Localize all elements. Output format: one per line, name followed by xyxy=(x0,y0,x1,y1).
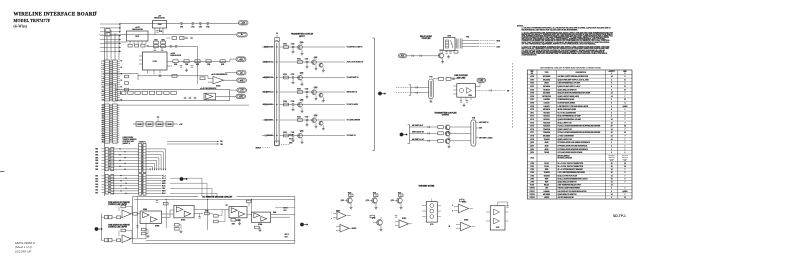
svg-text:DC TO DC CONVERTER: DC TO DC CONVERTER xyxy=(558,112,577,114)
svg-text:2: 2 xyxy=(611,149,612,151)
svg-text:1007: 1007 xyxy=(95,166,98,168)
svg-text:OUT: OUT xyxy=(285,236,288,238)
wire: ref out xyxy=(224,79,237,81)
svg-text:OF THE OPERATIONAL EQUIPMENT.: OF THE OPERATIONAL EQUIPMENT. REFER TO T… xyxy=(522,42,597,45)
ground xyxy=(186,69,188,71)
IC U711 unused sections xyxy=(426,202,437,223)
svg-text:J705: J705 xyxy=(530,178,534,180)
svg-text:1 OF 8 DECODER/DEMULTIPLEXER: 1 OF 8 DECODER/DEMULTIPLEXER xyxy=(558,172,586,174)
ground xyxy=(448,55,450,57)
bracket line input xyxy=(410,85,412,95)
svg-text:J701: J701 xyxy=(530,166,534,168)
ground xyxy=(463,104,465,106)
svg-text:U709: U709 xyxy=(530,106,534,108)
svg-text:7: 7 xyxy=(624,122,625,124)
svg-text:U717: U717 xyxy=(530,132,534,134)
svg-text:SD-TP-1: SD-TP-1 xyxy=(613,214,626,218)
svg-text:TO XMIT 4T: TO XMIT 4T xyxy=(347,134,357,137)
svg-text:Q710: Q710 xyxy=(341,200,345,202)
svg-text:J700: J700 xyxy=(530,163,534,165)
cable bottom connector xyxy=(275,141,280,146)
comparator block U709 xyxy=(252,212,271,222)
svg-text:R731: R731 xyxy=(297,58,301,60)
resistor R732 xyxy=(284,76,289,79)
capacitor C705 xyxy=(146,44,148,46)
transistor Q711 unused xyxy=(374,194,379,197)
capacitor C714 xyxy=(460,100,462,102)
transistor Q70 xyxy=(298,45,303,50)
svg-text:R763: R763 xyxy=(232,224,235,226)
svg-text:TO LINE DRIVER: TO LINE DRIVER xyxy=(347,120,361,122)
terminal PTT input xyxy=(399,54,407,58)
wire: decode inner left vertical xyxy=(137,197,139,239)
svg-text:K700: K700 xyxy=(448,36,452,38)
wire: xmit row 1 xyxy=(410,126,438,128)
svg-text:MODEL TRN7477F: MODEL TRN7477F xyxy=(14,18,51,23)
svg-text:U703: U703 xyxy=(530,86,534,88)
svg-text:U702: U702 xyxy=(530,83,534,85)
svg-text:7: 7 xyxy=(624,129,625,131)
wire: ref2 feed xyxy=(196,79,198,84)
svg-text:Q712: Q712 xyxy=(391,200,395,202)
terminal +2.4VREF xyxy=(236,94,246,98)
resistor R757 xyxy=(142,228,147,231)
wire: rail drop 1 xyxy=(165,199,167,228)
svg-text:R735: R735 xyxy=(297,116,301,118)
resistor R711 xyxy=(128,91,133,94)
svg-text:P2: P2 xyxy=(121,100,123,102)
label xmit outputs xyxy=(476,121,479,123)
svg-text:C723: C723 xyxy=(305,88,309,90)
svg-text:DET 2: DET 2 xyxy=(285,234,289,236)
terminal +4.8V xyxy=(236,57,246,62)
wire: decode right border xyxy=(294,197,296,244)
ground under transformer xyxy=(430,100,432,102)
resistor R701 xyxy=(135,44,139,47)
resistor R726 xyxy=(454,51,458,54)
svg-text:4W XMIT LO/600: 4W XMIT LO/600 xyxy=(479,137,492,140)
capacitor C726 xyxy=(292,134,294,136)
resistor R759 xyxy=(175,224,180,227)
table special row xyxy=(527,161,632,163)
capacitor C712 xyxy=(449,51,451,53)
svg-text:8: 8 xyxy=(624,172,625,174)
capacitor C720 xyxy=(292,45,294,47)
svg-text:3,GND: 3,GND xyxy=(622,106,628,108)
svg-text:U720: U720 xyxy=(530,158,534,160)
svg-text:TO RCV GATE: TO RCV GATE xyxy=(347,103,359,106)
svg-text:JU703: JU703 xyxy=(158,124,162,126)
svg-text:PTT: PTT xyxy=(401,55,404,57)
wire: node to 4.8V regulator xyxy=(196,47,198,80)
svg-text:U708: U708 xyxy=(530,103,534,105)
resistor R761 xyxy=(460,199,465,202)
svg-text:Q703: Q703 xyxy=(314,87,318,89)
svg-text:MEPS-39068-O: MEPS-39068-O xyxy=(15,241,36,245)
resistor R709b xyxy=(220,60,225,63)
svg-text:3: 3 xyxy=(611,197,612,199)
capacitor C717 xyxy=(190,36,192,38)
wire: xmit row 2 xyxy=(410,132,438,134)
wire: regulator interconnect xyxy=(105,41,127,43)
svg-text:R707: R707 xyxy=(196,64,199,66)
wire bundle 2 xyxy=(111,175,139,177)
transistor Q712 unused xyxy=(399,194,404,197)
wire: lines to decode circuit xyxy=(170,178,202,196)
transistor Q71 xyxy=(312,60,317,65)
connector pins line 2 xyxy=(105,238,108,241)
capacitor C719c xyxy=(194,96,196,98)
svg-text:1: 1 xyxy=(624,149,625,151)
terminal LINE xyxy=(477,78,486,82)
svg-text:28: 28 xyxy=(611,166,613,168)
terminal +4.8VREF xyxy=(237,78,247,82)
svg-text:OUT: OUT xyxy=(284,210,287,212)
resistor R753 xyxy=(205,212,210,215)
resistor R763 xyxy=(231,219,236,222)
svg-text:DC REMOTE DECODE CIRCUIT: DC REMOTE DECODE CIRCUIT xyxy=(202,197,233,199)
capacitor C725 xyxy=(306,118,308,120)
op-amp U705B xyxy=(117,239,121,242)
wire: opamp1 out xyxy=(131,213,133,215)
terminal +5V dist xyxy=(237,71,247,75)
connector J3A pins xyxy=(105,148,108,171)
resistor R727 xyxy=(439,77,444,80)
transistor Q76 xyxy=(298,133,303,138)
svg-text:8: 8 xyxy=(624,76,625,78)
resistor R741 xyxy=(438,132,444,135)
svg-text:CONTROL UNIT: CONTROL UNIT xyxy=(123,141,135,143)
svg-text:U710: U710 xyxy=(530,109,534,111)
svg-text:Q700: Q700 xyxy=(530,142,534,144)
svg-text:1003: 1003 xyxy=(95,154,98,156)
comparator block U708 xyxy=(229,207,247,218)
svg-text:P2: P2 xyxy=(276,33,278,35)
svg-text:+: + xyxy=(331,218,332,220)
svg-text:1016: 1016 xyxy=(95,190,98,192)
svg-text:U713: U713 xyxy=(496,227,500,229)
svg-text:C720: C720 xyxy=(291,43,295,45)
resistor R764 xyxy=(255,226,260,229)
capacitor C715 xyxy=(466,100,468,102)
svg-text:12: 12 xyxy=(611,185,613,187)
svg-text:GND: GND xyxy=(624,160,627,162)
svg-text:MLM339: MLM339 xyxy=(543,89,549,91)
svg-text:P2: P2 xyxy=(121,74,123,76)
resistor R754 xyxy=(214,215,219,218)
transistor Q75 xyxy=(312,118,317,123)
resistor R760 xyxy=(370,215,375,218)
svg-text:10: 10 xyxy=(624,126,626,128)
svg-text:V: V xyxy=(624,73,625,75)
wire: mesh b2-b3 xyxy=(194,209,229,211)
svg-text:C709: C709 xyxy=(207,64,210,66)
resistor R742 xyxy=(438,139,444,142)
ground xyxy=(239,222,241,224)
resistor R736 xyxy=(284,134,289,137)
svg-text:+12V: +12V xyxy=(179,124,183,126)
svg-text:U705: U705 xyxy=(530,93,534,95)
svg-text:R709: R709 xyxy=(221,64,224,66)
svg-text:U713: U713 xyxy=(530,119,534,121)
resistor R708 xyxy=(206,60,211,63)
connector J1 input stubs xyxy=(106,29,110,32)
svg-text:U700: U700 xyxy=(530,76,534,78)
capacitor C701 xyxy=(156,30,158,32)
svg-text:Q701: Q701 xyxy=(314,57,318,59)
svg-text:R753: R753 xyxy=(205,211,208,213)
svg-text:11: 11 xyxy=(624,86,626,88)
svg-text:LINE: LINE xyxy=(497,46,500,48)
svg-text:1005: 1005 xyxy=(95,160,98,162)
wire: transformer secondary out xyxy=(462,40,478,42)
terminal +9.6V xyxy=(239,21,249,25)
svg-text:1002: 1002 xyxy=(95,152,98,154)
wire: output dashed xyxy=(475,90,506,92)
svg-text:P2: P2 xyxy=(121,80,123,82)
svg-text:20: 20 xyxy=(611,132,613,134)
capacitor C718 xyxy=(159,74,161,76)
svg-text:PLUG: PLUG xyxy=(544,163,549,165)
svg-text:U712: U712 xyxy=(530,116,534,118)
svg-text:+9.6V: +9.6V xyxy=(241,22,245,24)
svg-text:10: 10 xyxy=(624,132,626,134)
svg-text:3: 3 xyxy=(611,152,612,154)
svg-text:P2: P2 xyxy=(121,61,123,63)
svg-text:7: 7 xyxy=(624,96,625,98)
svg-text:MICROFARADS, AND INDUCTOR VALU: MICROFARADS, AND INDUCTOR VALUES ARE IN … xyxy=(522,28,579,31)
connector J4 pins xyxy=(105,175,108,195)
off-page connector to sheet 2 xyxy=(180,177,184,181)
svg-text:TO 4W RCV LINE HI: TO 4W RCV LINE HI xyxy=(347,46,363,49)
svg-text:J703: J703 xyxy=(530,172,534,174)
resistor R766 xyxy=(133,213,137,216)
wire: b1-b2 links xyxy=(162,213,174,215)
svg-text:T702: T702 xyxy=(466,37,469,39)
svg-text:Q702: Q702 xyxy=(300,73,304,75)
svg-text:COUPLER: COUPLER xyxy=(422,38,431,40)
wire: reference feed xyxy=(105,73,139,75)
capacitor C721 xyxy=(198,216,200,218)
resistor R705 xyxy=(173,60,178,63)
svg-text:U711: U711 xyxy=(530,112,534,114)
capacitor C730 xyxy=(395,215,397,217)
bracket xmit rows xyxy=(409,125,411,144)
svg-text:U705C: U705C xyxy=(402,218,406,220)
option jumper chain xyxy=(133,123,178,125)
resistor R715 xyxy=(157,91,162,94)
svg-text:T700: T700 xyxy=(472,117,476,119)
connector J2 pins xyxy=(105,104,110,143)
off-page connector coupler xyxy=(378,92,382,96)
svg-text:50 + 1 POS. TELCO CONNECTOR: 50 + 1 POS. TELCO CONNECTOR xyxy=(558,166,584,168)
svg-text:2: 2 xyxy=(611,146,612,148)
capacitor C720 xyxy=(156,200,158,202)
svg-text:J706: J706 xyxy=(530,182,534,184)
comparator block U706 xyxy=(140,211,161,223)
svg-text:1012: 1012 xyxy=(95,178,98,180)
svg-text:JU702: JU702 xyxy=(148,124,152,126)
svg-text:P2: P2 xyxy=(121,67,123,69)
svg-text:1015: 1015 xyxy=(95,187,98,189)
wire: main left vertical rail xyxy=(104,28,106,196)
resistor R700 xyxy=(128,44,132,47)
svg-text:U718: U718 xyxy=(530,136,534,138)
svg-text:Q703: Q703 xyxy=(530,152,534,154)
svg-text:REGULATOR: REGULATOR xyxy=(154,16,165,19)
svg-text:U706D: U706D xyxy=(464,220,468,222)
capacitor C702 xyxy=(180,22,182,24)
capacitor C721 xyxy=(306,60,308,62)
svg-text:WIRELINE INTERFACE BOARD: WIRELINE INTERFACE BOARD xyxy=(14,11,97,17)
capacitor C706 xyxy=(154,48,156,50)
capacitor C713 xyxy=(452,77,454,79)
capacitor C723 xyxy=(136,225,138,227)
resistor R731 xyxy=(298,61,303,64)
svg-text:U711: U711 xyxy=(430,224,433,226)
svg-text:7: 7 xyxy=(624,93,625,95)
svg-text:R703: R703 xyxy=(154,39,157,41)
resistor R735 xyxy=(298,119,303,122)
svg-text:3: 3 xyxy=(611,99,612,101)
resistor R734 xyxy=(284,103,289,106)
svg-text:CONTROL LINE 2 INPUT: CONTROL LINE 2 INPUT xyxy=(108,227,127,229)
svg-text:IN: IN xyxy=(449,226,450,228)
svg-text:1: 1 xyxy=(624,142,625,144)
transformer T700 xyxy=(471,120,476,146)
resistor R703b xyxy=(154,45,159,48)
svg-text:(SHEET 2): (SHEET 2) xyxy=(123,143,131,145)
svg-text:600: 600 xyxy=(479,128,482,130)
resistor R752 xyxy=(164,202,169,205)
capacitor C711 xyxy=(445,51,447,53)
resistor network right of J1 xyxy=(125,75,129,78)
capacitor C710 xyxy=(157,115,159,117)
transistor Q713 unused xyxy=(377,220,383,226)
svg-text:U706B: U706B xyxy=(155,225,159,227)
svg-text:U716: U716 xyxy=(530,129,534,131)
svg-text:SHIELD: SHIELD xyxy=(255,147,261,149)
off-page connector xmit xyxy=(400,133,404,137)
wire: rcv audio long net xyxy=(117,104,249,106)
capacitor C723 xyxy=(306,90,308,92)
resistor R704b xyxy=(161,45,166,48)
capacitor C705a xyxy=(207,22,209,24)
svg-text:R771: R771 xyxy=(373,193,376,195)
svg-text:7: 7 xyxy=(624,175,625,177)
svg-text:+5V: +5V xyxy=(240,72,243,74)
svg-text:20: 20 xyxy=(611,126,613,128)
resistor R756 xyxy=(247,200,252,203)
capacitor C716 xyxy=(185,36,187,38)
svg-text:2: 2 xyxy=(611,142,612,144)
svg-text:1017: 1017 xyxy=(95,192,98,194)
wire: opamp2 out xyxy=(131,238,146,240)
svg-text:UNUSED GATES: UNUSED GATES xyxy=(419,184,435,187)
transistor Q74 xyxy=(298,102,303,107)
transistor Q707 xyxy=(445,131,450,136)
svg-text:16: 16 xyxy=(611,172,613,174)
svg-text:U701: U701 xyxy=(530,79,534,81)
capacitor C722 xyxy=(225,203,227,205)
svg-text:PLUG: PLUG xyxy=(544,166,549,168)
svg-text:28: 28 xyxy=(611,163,613,165)
wire: input verticals to connector xyxy=(106,33,108,60)
wire: decode bottom border xyxy=(133,242,295,244)
svg-text:C722: C722 xyxy=(291,74,295,76)
wire: input bracket xyxy=(100,214,102,241)
svg-text:16: 16 xyxy=(611,178,613,180)
svg-text:7: 7 xyxy=(624,194,625,196)
off-page connector decode left xyxy=(95,227,99,231)
capacitor C719a xyxy=(184,96,186,98)
svg-text:V: V xyxy=(611,73,612,75)
svg-text:REGULATOR: REGULATOR xyxy=(132,28,143,31)
svg-text:Q701: Q701 xyxy=(530,146,534,148)
wire: long option lines xyxy=(167,141,217,143)
svg-text:TX HI: TX HI xyxy=(289,134,293,136)
svg-text:2: 2 xyxy=(611,188,612,190)
wire: b4 outputs xyxy=(271,213,295,215)
svg-text:OUTPUT: OUTPUT xyxy=(442,115,450,117)
wire: +9.6V supply rail xyxy=(120,23,239,25)
svg-text:10/21/99- UP: 10/21/99- UP xyxy=(15,249,31,253)
svg-text:1001: 1001 xyxy=(95,149,98,151)
terminal A+ xyxy=(237,32,248,37)
svg-text:DESCRIPTION: DESCRIPTION xyxy=(576,72,586,74)
svg-text:P2: P2 xyxy=(121,93,123,95)
wire: +4.8V out xyxy=(178,60,230,62)
svg-text:1008: 1008 xyxy=(95,169,98,171)
jumper JU701 xyxy=(136,122,143,126)
wire: A+ rail xyxy=(110,34,236,36)
transistor Q75B xyxy=(319,121,323,125)
svg-text:CR703: CR703 xyxy=(530,197,535,199)
wire: xmit row 3 xyxy=(410,140,438,142)
svg-text:LM339N: LM339N xyxy=(544,99,551,101)
svg-text:50 + 1 POS. TELCO CONNECTOR: 50 + 1 POS. TELCO CONNECTOR xyxy=(558,163,584,165)
svg-text:INPUT: INPUT xyxy=(299,36,305,38)
svg-text:JU701: JU701 xyxy=(138,124,142,126)
resistor R762 xyxy=(175,228,180,231)
resistor R723 xyxy=(200,77,205,80)
svg-text:C726: C726 xyxy=(291,132,295,134)
fold mark left edge xyxy=(0,171,5,173)
ground xyxy=(147,235,149,237)
capacitor C731 xyxy=(506,205,508,207)
svg-text:6: 6 xyxy=(611,109,612,111)
input harness arrows xyxy=(100,23,119,25)
off-page connector decode right xyxy=(300,223,304,227)
svg-text:R772: R772 xyxy=(398,193,401,195)
resistor R714 xyxy=(149,91,154,94)
svg-text:+5 VDC CONVERTER: +5 VDC CONVERTER xyxy=(558,136,575,138)
svg-text:TO 4W XMIT HI: TO 4W XMIT HI xyxy=(347,76,360,79)
resistor R709 xyxy=(172,37,177,40)
svg-text:7: 7 xyxy=(624,139,625,141)
transistor Q705 xyxy=(438,53,443,58)
svg-text:J702: J702 xyxy=(530,169,534,171)
wire: relay drive xyxy=(407,55,439,57)
label DC remote decode circuit xyxy=(133,196,199,198)
capacitor C708 xyxy=(180,65,182,67)
svg-text:TYPE: TYPE xyxy=(545,72,549,74)
svg-text:U706: U706 xyxy=(530,96,534,98)
svg-text:8: 8 xyxy=(624,178,625,180)
svg-text:U715: U715 xyxy=(530,126,534,128)
svg-text:U701: U701 xyxy=(135,36,139,38)
wire: coupler output xyxy=(475,86,480,88)
